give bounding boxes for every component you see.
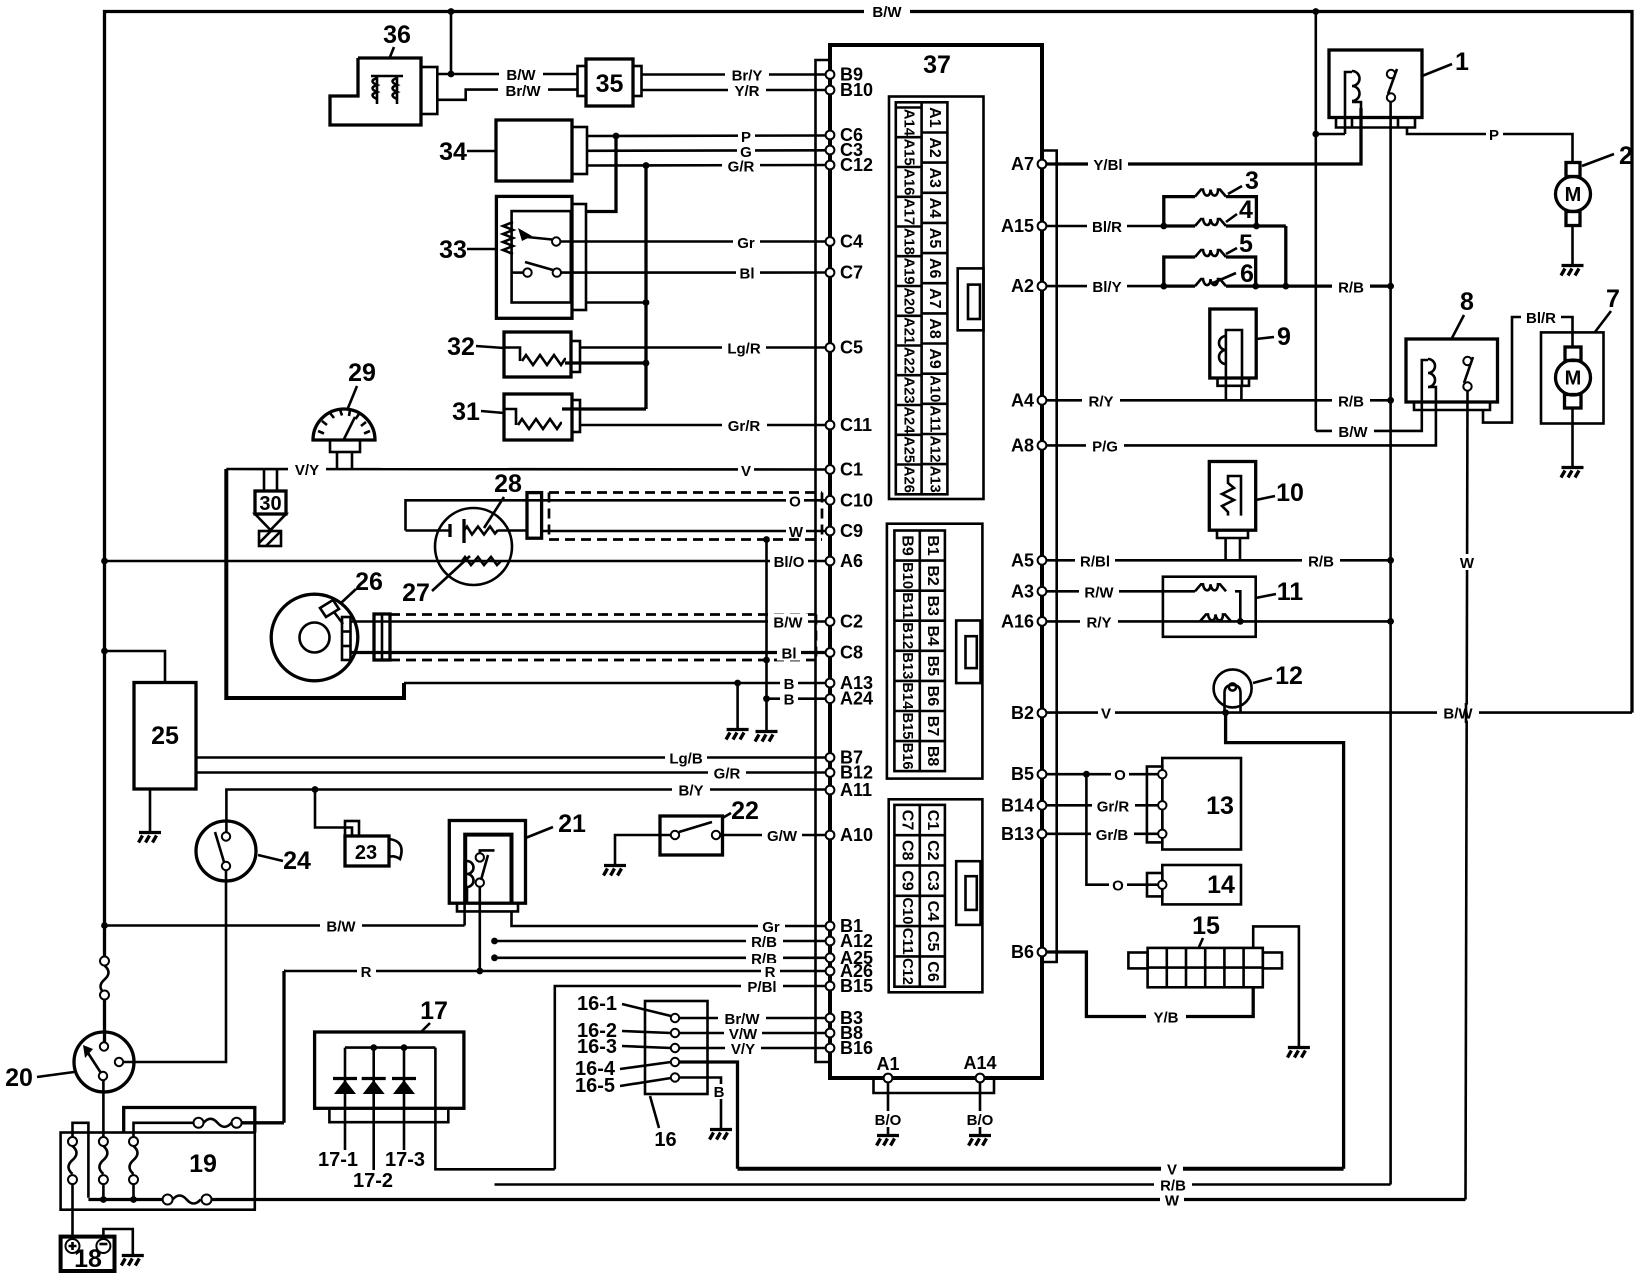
svg-text:A26: A26: [901, 466, 917, 493]
svg-text:12: 12: [1275, 662, 1303, 690]
wire relay 21 contact drop to R wire: [476, 887, 483, 975]
svg-text:B15: B15: [899, 713, 915, 740]
wire B to A13: [404, 675, 826, 693]
connector table C (C1-C12): [889, 799, 983, 992]
ignition coil 36: [330, 58, 437, 125]
svg-text:A1: A1: [876, 1054, 899, 1074]
svg-text:V/Y: V/Y: [731, 1041, 755, 1058]
wire diode rail to P/Bl drop: [435, 1048, 554, 1170]
svg-text:Lg/B: Lg/B: [669, 751, 702, 768]
svg-text:16-3: 16-3: [577, 1036, 617, 1058]
wire B/W distributor to C2: [351, 614, 826, 632]
svg-text:A10: A10: [840, 825, 873, 845]
wire Y/R 35 to B10: [642, 82, 826, 100]
wire B/W to relay 8 coil: [1316, 410, 1422, 441]
ECU left edge pins: [826, 65, 873, 1059]
svg-text:A5: A5: [1011, 550, 1034, 570]
wire W relay 8 contact down: [1456, 391, 1478, 1200]
svg-text:A11: A11: [927, 405, 943, 432]
svg-text:Bl: Bl: [740, 266, 755, 283]
svg-text:A5: A5: [926, 228, 943, 249]
svg-text:A23: A23: [901, 377, 917, 404]
svg-text:B6: B6: [924, 686, 941, 707]
shield connector block: [527, 493, 542, 539]
svg-text:34: 34: [439, 138, 467, 166]
sensor 34: [496, 120, 587, 181]
svg-text:A9: A9: [926, 348, 943, 369]
wire coil34 chain down: [1282, 226, 1289, 290]
svg-text:R: R: [361, 964, 372, 981]
wire R/B label near coils: [1332, 279, 1370, 297]
wire Bl/R to A15: [1046, 218, 1167, 236]
svg-text:A7: A7: [1011, 154, 1034, 174]
wire Lg/R 32 to C5: [580, 340, 826, 358]
svg-text:B2: B2: [1011, 703, 1034, 723]
svg-text:O: O: [1112, 878, 1124, 895]
svg-text:B/O: B/O: [875, 1112, 902, 1129]
svg-text:C6: C6: [924, 961, 941, 982]
wire Bl/O sensor 27 to A6: [101, 553, 826, 571]
svg-text:16: 16: [654, 1129, 676, 1151]
wire Gr/R B14 to unit 13: [1046, 797, 1158, 815]
wire Br/W coil36 to connector 35: [437, 82, 578, 100]
svg-text:B: B: [784, 676, 795, 693]
junction top B/W to coil 36: [448, 8, 455, 15]
ECU inner left shell line: [816, 60, 831, 1062]
throttle sensor 33: [496, 196, 586, 318]
svg-text:M: M: [1565, 184, 1582, 206]
wire B/O A1 to ground: [870, 1082, 907, 1134]
svg-text:A13: A13: [927, 466, 943, 493]
pin 16-1: [671, 1014, 679, 1022]
wire W 28 to C9: [542, 523, 826, 541]
svg-text:A19: A19: [901, 258, 917, 285]
wire B/O A14 to ground: [962, 1082, 999, 1134]
svg-text:A22: A22: [901, 347, 917, 374]
svg-text:18: 18: [74, 1245, 102, 1273]
svg-text:A24: A24: [901, 406, 917, 433]
svg-text:Y/R: Y/R: [734, 83, 759, 100]
svg-text:A25: A25: [901, 436, 917, 463]
svg-text:31: 31: [452, 398, 480, 426]
wire B/W drop to relay 1 and relay 8: [1312, 12, 1319, 431]
wire V lamp drop to V bus: [1226, 713, 1344, 1169]
wire G/W 22 to A10: [720, 827, 826, 845]
fuel filter 30: [255, 469, 286, 546]
fuse 19 top: [194, 1118, 285, 1128]
svg-text:A14: A14: [963, 1053, 996, 1073]
ECU 37 outer box: [830, 45, 1042, 1078]
relay 1: [1329, 50, 1422, 134]
svg-text:B8: B8: [924, 746, 941, 767]
svg-text:Gr/R: Gr/R: [1097, 798, 1130, 815]
svg-text:Gr: Gr: [737, 235, 755, 252]
valve unit 11: [1163, 577, 1256, 637]
wire Gr/B B13 to unit 13: [1046, 826, 1158, 844]
svg-text:R/B: R/B: [1338, 393, 1364, 410]
svg-text:C8: C8: [840, 643, 863, 663]
svg-text:23: 23: [355, 842, 377, 864]
latch A: [958, 268, 984, 330]
injector coil 5: [1164, 250, 1256, 286]
fusible link 19c: [129, 1123, 199, 1203]
latch C: [956, 861, 980, 925]
shielded cable box distributor: [390, 615, 816, 664]
table B cell rows and pin numbers: [894, 561, 945, 742]
svg-text:16-5: 16-5: [575, 1075, 615, 1097]
wire Gr/R 31 to C11: [580, 417, 826, 435]
wire R/Y A4 to solenoid 9 and R/B junction: [1046, 386, 1390, 411]
diag switch 24: [196, 821, 256, 881]
ignition assembly enclosure: [226, 469, 404, 698]
wire P 34 to C6: [587, 128, 826, 146]
wire Lg/B 25 to B7: [196, 750, 826, 768]
coil 11b: [1200, 614, 1231, 621]
wire relay 21 coil pin to B/W: [463, 911, 466, 925]
svg-text:A15: A15: [1001, 216, 1034, 236]
svg-text:C9: C9: [840, 521, 863, 541]
svg-text:Bl/O: Bl/O: [774, 554, 805, 571]
wire G 34 to C3: [587, 143, 826, 161]
injector coil 3: [1164, 190, 1257, 226]
svg-text:25: 25: [151, 722, 179, 750]
svg-text:A8: A8: [926, 318, 943, 339]
battery 18: [61, 1237, 115, 1273]
svg-text:R/B: R/B: [1160, 1178, 1186, 1195]
pin 16-2: [671, 1029, 679, 1037]
ECU bottom connector bracket: [874, 1078, 995, 1093]
wire G/R 25 to B12: [196, 765, 826, 783]
svg-text:A2: A2: [1011, 276, 1034, 296]
svg-text:A21: A21: [901, 317, 917, 344]
svg-text:A15: A15: [901, 139, 917, 166]
svg-text:16-1: 16-1: [577, 993, 617, 1015]
wire R/W A3 to coil 11a: [1046, 583, 1195, 601]
ground below switch 22: [604, 866, 627, 876]
svg-text:Bl: Bl: [782, 646, 797, 663]
wire left border to resistor 25: [101, 648, 165, 683]
wire B/Y branch to valve 23: [315, 790, 352, 837]
svg-text:B4: B4: [924, 625, 941, 646]
gauge 29: [313, 409, 375, 469]
svg-text:B/W: B/W: [872, 4, 902, 21]
svg-text:2: 2: [1619, 142, 1633, 170]
svg-text:C12: C12: [899, 958, 915, 985]
svg-text:A11: A11: [840, 780, 872, 800]
svg-text:Lg/R: Lg/R: [727, 341, 760, 358]
heater element 28 with battery plates: [406, 519, 528, 543]
svg-text:21: 21: [558, 810, 586, 838]
svg-text:B/O: B/O: [967, 1112, 994, 1129]
svg-text:B/W: B/W: [773, 615, 803, 632]
wire Y/Bl relay 1 to A7: [1046, 108, 1361, 174]
motor 2: [1556, 163, 1591, 265]
wire B6 to Y/B and fuse 15: [1046, 952, 1253, 1027]
ground below A14: [969, 1136, 992, 1146]
control unit 14: [1147, 865, 1241, 904]
svg-text:33: 33: [439, 236, 467, 264]
injector coil 4: [1164, 219, 1286, 229]
svg-text:B/W: B/W: [506, 67, 536, 84]
ground below 25: [139, 833, 162, 843]
svg-text:8: 8: [1460, 288, 1474, 316]
connector 16: [645, 1001, 708, 1094]
main relay 21: [449, 821, 525, 912]
table C cell rows and pin numbers: [894, 835, 945, 956]
svg-text:B: B: [784, 692, 795, 709]
svg-text:B5: B5: [924, 656, 941, 677]
latch B: [956, 621, 980, 684]
svg-text:A16: A16: [1001, 611, 1034, 631]
diode 17-1: [333, 1048, 357, 1150]
svg-text:A18: A18: [901, 228, 917, 255]
warning lamp 12: [1214, 669, 1252, 712]
wire 16-4 to V bus: [679, 1062, 738, 1169]
svg-text:17-2: 17-2: [353, 1170, 393, 1192]
connector table A (A1-A26): [889, 97, 984, 500]
diode 17-3: [392, 1048, 416, 1150]
wire P/Bl to B15: [555, 978, 826, 1169]
svg-text:A6: A6: [926, 258, 943, 279]
svg-text:20: 20: [5, 1064, 33, 1092]
wire Br/Y 35 to B9: [642, 67, 826, 85]
svg-text:B3: B3: [924, 595, 941, 616]
coil 11a: [1195, 584, 1244, 625]
svg-text:Y/Bl: Y/Bl: [1093, 157, 1122, 174]
svg-text:G/R: G/R: [714, 766, 741, 783]
svg-text:17-1: 17-1: [318, 1149, 358, 1171]
wire V bus bottom: [738, 1161, 1344, 1179]
svg-text:A20: A20: [901, 287, 917, 314]
wire switch 24 to ignition switch 20: [123, 870, 226, 1062]
svg-text:37: 37: [923, 51, 951, 79]
svg-text:17-3: 17-3: [385, 1149, 425, 1171]
svg-text:B10: B10: [840, 80, 873, 100]
svg-text:Br/Y: Br/Y: [732, 68, 763, 85]
svg-text:22: 22: [731, 797, 759, 825]
svg-text:7: 7: [1606, 285, 1620, 313]
svg-text:35: 35: [596, 70, 624, 98]
wire drop to ignition coil feed: [450, 12, 453, 75]
svg-text:R/Y: R/Y: [1088, 393, 1113, 410]
wire B/W coil36 to connector 35: [437, 66, 578, 84]
wire R/B net vertical relay 1 contact: [1387, 102, 1394, 1185]
ground battery: [121, 1256, 144, 1266]
wire B to A24: [763, 691, 826, 709]
wire Bl/R relay 8 to motor 7: [1483, 309, 1573, 423]
svg-text:B1: B1: [924, 535, 941, 556]
svg-text:B13: B13: [1001, 824, 1034, 844]
svg-text:29: 29: [348, 359, 376, 387]
svg-text:R/B: R/B: [1308, 553, 1334, 570]
svg-text:Bl/R: Bl/R: [1526, 310, 1556, 327]
valve 23: [345, 821, 402, 866]
svg-text:26: 26: [355, 568, 383, 596]
svg-text:O: O: [1114, 767, 1126, 784]
distributor connector block: [374, 614, 390, 660]
svg-text:R/W: R/W: [1084, 584, 1114, 601]
svg-text:W: W: [1460, 555, 1475, 572]
svg-text:24: 24: [283, 847, 311, 875]
svg-text:C2: C2: [924, 840, 941, 861]
svg-text:B10: B10: [899, 562, 915, 589]
svg-text:5: 5: [1239, 230, 1253, 258]
ground below motor 7: [1561, 468, 1584, 478]
svg-text:36: 36: [383, 21, 411, 49]
svg-text:C4: C4: [924, 901, 941, 922]
fusible link 19b: [99, 1137, 108, 1203]
svg-text:19: 19: [189, 1150, 217, 1178]
svg-text:B12: B12: [899, 622, 915, 649]
fuse box 19: [61, 1108, 255, 1210]
svg-text:1: 1: [1455, 48, 1469, 76]
control unit 13: [1147, 758, 1241, 850]
svg-text:C2: C2: [840, 612, 863, 632]
svg-text:9: 9: [1277, 323, 1291, 351]
wire R/B to A25: [491, 950, 825, 968]
wire Bl/Y to A2: [1046, 278, 1167, 296]
junction top B/W to relay 1 drop: [1312, 8, 1319, 15]
svg-text:C4: C4: [840, 232, 863, 252]
wire R fuse to A26: [285, 963, 826, 981]
svg-text:A6: A6: [840, 551, 863, 571]
svg-text:A3: A3: [1011, 581, 1034, 601]
wire 32 inner to G/R branch: [565, 361, 646, 364]
wire W bus bottom: [88, 1192, 1465, 1210]
diode module 17: [315, 1032, 464, 1122]
wire Br/W 16-1 to B3: [679, 1010, 826, 1028]
svg-text:A4: A4: [926, 198, 943, 219]
wire G/R 34 to C12: [587, 158, 826, 176]
svg-text:A16: A16: [901, 168, 917, 195]
relay 8: [1406, 339, 1498, 410]
svg-text:A4: A4: [1011, 390, 1034, 410]
svg-text:Br/W: Br/W: [506, 83, 542, 100]
connector 35: [578, 59, 642, 106]
wire Bl 33 to C7: [561, 265, 826, 283]
ground below 16: [710, 1130, 733, 1140]
wire V/Y and V to C1: [226, 461, 825, 480]
svg-text:11: 11: [1277, 578, 1304, 606]
pin 16-3: [671, 1044, 679, 1052]
svg-text:B2: B2: [924, 565, 941, 586]
ECU inner right shell line: [1042, 151, 1057, 963]
svg-text:4: 4: [1239, 196, 1253, 224]
svg-text:A14: A14: [901, 109, 917, 136]
wire R fuse top bus: [284, 969, 285, 972]
svg-text:B16: B16: [899, 743, 915, 770]
svg-text:27: 27: [402, 579, 430, 607]
svg-text:B/W: B/W: [1443, 706, 1473, 723]
ground drop from B A13: [736, 683, 739, 728]
svg-text:A10: A10: [927, 375, 943, 402]
svg-text:C9: C9: [899, 870, 916, 891]
pin 16-4: [671, 1058, 679, 1066]
svg-text:10: 10: [1276, 479, 1304, 507]
wire B/Y switch 24 to A11: [226, 782, 825, 837]
svg-text:3: 3: [1245, 167, 1259, 195]
wire P relay 1 to motor 2: [1407, 126, 1573, 163]
ground below fuse 15: [1287, 1048, 1310, 1058]
wire V/Y 16-3 to B16: [679, 1040, 826, 1058]
solenoid 9: [1210, 309, 1256, 386]
svg-text:W: W: [1165, 1193, 1180, 1210]
wire V/W 16-2 to B8: [679, 1025, 826, 1043]
svg-text:C8: C8: [899, 840, 916, 861]
svg-text:B14: B14: [899, 682, 915, 709]
wire R/B to A12: [491, 933, 825, 951]
svg-text:V: V: [1101, 706, 1111, 723]
wire B/W top bus: [105, 3, 1633, 958]
distributor 26: [271, 594, 358, 681]
ECU right edge pins: [1001, 154, 1046, 962]
svg-text:32: 32: [447, 333, 475, 361]
svg-text:B13: B13: [899, 652, 915, 679]
svg-text:B11: B11: [899, 592, 915, 619]
ground symbol: [726, 730, 749, 740]
fusible link 19a: [68, 1123, 88, 1198]
pin 16-5: [671, 1073, 679, 1081]
svg-text:B7: B7: [924, 716, 941, 737]
wire R fuse to corner: [282, 971, 285, 1123]
injector coil 6: [1164, 279, 1391, 289]
table A cell rows and pin numbers: [896, 108, 948, 465]
svg-text:P/Bl: P/Bl: [747, 979, 776, 996]
svg-text:B16: B16: [840, 1038, 873, 1058]
svg-text:C12: C12: [840, 155, 873, 175]
svg-text:V: V: [1167, 1162, 1177, 1179]
wire relay1 coil to B/W: [1316, 133, 1345, 136]
wire B 16-5 to ground: [679, 1078, 728, 1129]
svg-text:A2: A2: [926, 137, 943, 158]
svg-text:V/Y: V/Y: [295, 462, 319, 479]
svg-text:15: 15: [1192, 912, 1220, 940]
svg-text:V: V: [741, 463, 751, 480]
wire 34-P branch down to 33: [586, 136, 616, 212]
wire R/B bus bottom: [495, 1177, 1391, 1195]
svg-text:13: 13: [1206, 792, 1234, 820]
svg-text:B/Y: B/Y: [678, 783, 703, 800]
svg-text:Gr/B: Gr/B: [1096, 827, 1129, 844]
wire battery minus to ground: [103, 1229, 132, 1254]
ground below motor 2: [1561, 266, 1584, 276]
svg-text:28: 28: [494, 470, 522, 498]
wire V B2 and B/W to right border: [1046, 705, 1632, 723]
motor 7: [1541, 332, 1604, 466]
svg-text:C1: C1: [924, 810, 941, 831]
svg-text:B5: B5: [1011, 764, 1034, 784]
fuse 19 bottom: [163, 1195, 212, 1205]
svg-text:Bl/Y: Bl/Y: [1092, 279, 1121, 296]
svg-text:6: 6: [1240, 260, 1254, 288]
svg-text:R/Y: R/Y: [1086, 614, 1111, 631]
svg-text:P: P: [1489, 127, 1499, 144]
wire Bl distributor to C8: [351, 645, 826, 663]
svg-text:C1: C1: [840, 460, 863, 480]
wire G/R branch down along x646: [643, 166, 650, 410]
svg-text:14: 14: [1207, 871, 1235, 899]
wire 33 bottom to G/R branch: [586, 301, 646, 304]
solenoid 10: [1209, 462, 1255, 539]
svg-text:C3: C3: [924, 870, 941, 891]
svg-text:C7: C7: [899, 810, 916, 831]
ground below A1: [877, 1136, 900, 1146]
svg-text:A7: A7: [926, 288, 943, 309]
wire switch 20 to fuse link 2: [102, 1080, 105, 1138]
svg-text:A24: A24: [840, 689, 873, 709]
svg-text:B9: B9: [899, 535, 916, 556]
svg-text:A3: A3: [926, 167, 943, 188]
